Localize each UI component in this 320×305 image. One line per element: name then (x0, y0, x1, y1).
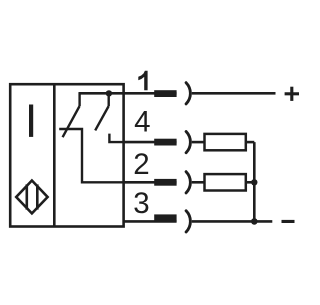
pin 1 label (138, 71, 147, 91)
wire R2 to bus (246, 181, 255, 184)
pin 3 wire to minus (192, 220, 272, 223)
bus junction dot at pin 3 (251, 218, 258, 225)
pin 4 wire to load (192, 141, 205, 144)
sensor body divider (53, 84, 56, 226)
pin 2 cable bar (154, 179, 176, 186)
inductive element bar I (29, 105, 33, 137)
pin 3 connector arc (186, 211, 190, 232)
pin 1 cable bar (154, 90, 176, 97)
switch NC contact plate to pin 2 (59, 129, 123, 182)
svg-text:3: 3 (133, 187, 149, 220)
pin 2 connector arc (186, 172, 190, 193)
load resistor R1 (205, 134, 246, 150)
svg-text:4: 4 (134, 105, 150, 138)
node junction dot (106, 90, 112, 96)
pin 4 cable bar (154, 139, 176, 146)
load resistor R2 (205, 174, 246, 190)
switch common top wire (79, 92, 124, 95)
bus junction dot at pin 2 (251, 179, 257, 185)
switch NC lever (63, 106, 80, 137)
pin 2 wire to load (192, 181, 205, 184)
switch NO contact hook to pin 4 (109, 134, 123, 143)
pin 4 wire (124, 141, 177, 144)
pin 1 connector arc (186, 83, 190, 104)
pin 4 connector arc (186, 132, 190, 153)
proximity sensor diamond symbol (16, 181, 47, 214)
switch NC lever stub (78, 92, 80, 106)
svg-text:2: 2 (133, 148, 149, 181)
switch NO lever stub (107, 93, 109, 106)
pin 3 cable bar (154, 214, 176, 221)
pin 1 wire to plus (192, 92, 276, 95)
pin 3 wire (124, 220, 177, 223)
load bus vertical wire (253, 142, 256, 221)
sensor body outline (10, 84, 123, 226)
pin 1 wire (124, 92, 177, 95)
pin 2 wire (124, 181, 177, 184)
plus terminal (285, 87, 299, 101)
minus terminal (282, 220, 295, 223)
wire R1 to bus (246, 141, 255, 144)
switch NO lever (95, 106, 109, 130)
